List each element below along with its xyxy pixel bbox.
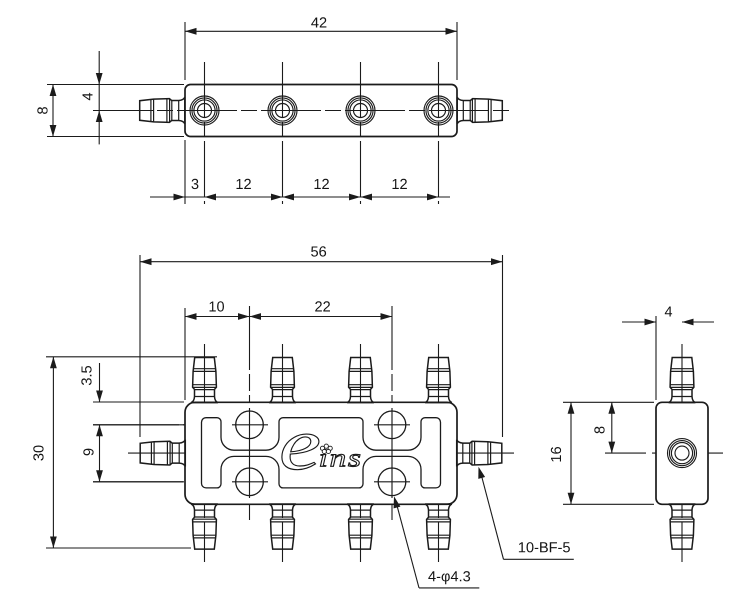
dim text 42 xyxy=(311,17,326,27)
mounting hole top-left xyxy=(236,411,264,439)
port P1 xyxy=(190,96,219,125)
side view bottom barb xyxy=(669,504,696,549)
side view top barb xyxy=(669,358,696,403)
centerline re-draw through holes xyxy=(232,408,410,498)
centerline column 2 xyxy=(282,344,284,562)
centerline port 2 xyxy=(282,62,284,204)
logo letter i xyxy=(320,449,326,466)
dim text 4 xyxy=(665,307,672,317)
eins logo xyxy=(282,434,360,470)
dim text 8 xyxy=(37,107,47,114)
top barb 4 xyxy=(425,358,452,403)
body side view xyxy=(656,402,708,504)
centerline port 4 xyxy=(438,62,440,204)
dim text 9 xyxy=(83,449,93,456)
centerline side barb right horizontal xyxy=(449,452,514,454)
centerline side barb left horizontal xyxy=(128,452,194,454)
mounting hole bottom-left xyxy=(236,468,264,496)
dimension 30 xyxy=(33,357,217,548)
centerline hole row bottom xyxy=(93,481,456,483)
dim text 12 xyxy=(315,179,329,189)
centerline column 3 xyxy=(360,344,362,562)
dimension 4 (side view) xyxy=(622,307,714,401)
dim text 8 xyxy=(594,427,604,434)
label 4-phi4.3 with leader xyxy=(394,496,480,588)
mounting hole bottom-right xyxy=(378,468,406,496)
dimension 8 (left, overall height of bar) xyxy=(37,85,184,137)
top barb 3 xyxy=(347,358,374,403)
port P2 xyxy=(268,96,297,125)
dimension 10 and 22 xyxy=(185,301,392,400)
dimension chain 3,12,12,12 xyxy=(150,140,450,204)
dim text 3 xyxy=(192,179,199,189)
bottom barb 3 xyxy=(347,504,374,549)
side view port xyxy=(668,439,697,468)
label text 4-phi4.3 xyxy=(428,571,470,584)
logo letter n xyxy=(331,454,345,466)
centerline port 3 xyxy=(360,62,362,204)
dimension 3.5 and 9 xyxy=(81,363,184,482)
centerline port 1 xyxy=(204,62,206,204)
dimension 16 xyxy=(551,402,654,504)
dim text 3.5 xyxy=(81,366,91,385)
dim text 30 xyxy=(33,446,43,461)
centerline horizontal top view xyxy=(93,110,513,112)
logo letter s xyxy=(348,454,360,466)
body front view xyxy=(185,402,457,504)
dimension 56 xyxy=(140,246,503,437)
body top view xyxy=(185,85,457,137)
centerline hole column A xyxy=(249,306,251,520)
port P4 xyxy=(424,96,453,125)
top barb 1 xyxy=(191,358,218,403)
dim text 56 xyxy=(311,246,326,256)
bottom barb 2 xyxy=(269,504,296,549)
label 10-BF-5 with leader xyxy=(478,467,574,560)
logo flower xyxy=(320,444,332,454)
dim text 22 xyxy=(315,301,330,311)
barb right top view xyxy=(457,97,502,124)
top barb 2 xyxy=(269,358,296,403)
centerline vertical side view xyxy=(681,344,683,562)
side barb left xyxy=(140,440,185,467)
dimension 8 (side view) xyxy=(594,402,615,453)
pocket contour xyxy=(202,418,441,488)
dim text 12 xyxy=(393,179,407,189)
dim text 10 xyxy=(210,301,225,311)
centerline hole column B xyxy=(391,306,393,520)
centerline column 1 xyxy=(204,344,206,562)
barb left top view xyxy=(140,97,185,124)
bottom barb 4 xyxy=(425,504,452,549)
label text 10-BF-5 xyxy=(519,542,570,552)
bottom barb 1 xyxy=(191,504,218,549)
dim text 16 xyxy=(551,447,561,462)
centerline horizontal side view xyxy=(605,452,646,454)
side barb right xyxy=(457,440,502,467)
port P3 xyxy=(346,96,375,125)
centerline hole row top xyxy=(93,424,290,426)
dimension 4 (half height to center) xyxy=(83,51,103,144)
logo letter e xyxy=(282,434,319,470)
dim text 12 xyxy=(237,179,251,189)
dim text 4 xyxy=(83,93,93,100)
dimension 42 xyxy=(185,17,457,80)
mounting hole top-right xyxy=(378,411,406,439)
centerline column 4 xyxy=(438,344,440,562)
